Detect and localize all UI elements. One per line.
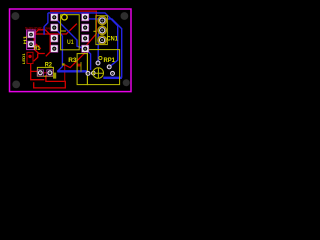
wire: blue trace 1 (top horizontal to CN1 right, down to RP1 pad) [48, 13, 118, 67]
wire: red top net (H1 pad1 to U1 right pad4) [31, 11, 96, 46]
U1 pad 6 (right col) [82, 24, 89, 31]
silk tick near CN1 [93, 30, 96, 32]
U1 pad 4 (left col) [51, 45, 58, 52]
mounting hole top-left [11, 12, 19, 20]
svg-text:R2: R2 [45, 62, 53, 68]
R3 outline (yellow) [77, 54, 87, 85]
svg-text:R3: R3 [68, 57, 77, 64]
wire: blue CN1 pin2 to RP1 pad [98, 30, 102, 61]
smd pad olive near R3 [62, 63, 65, 65]
smd pad dark red near R3 left edge [77, 64, 80, 67]
small ring marker in RP1 [99, 56, 102, 59]
H1 pad 1 [28, 31, 34, 37]
U1 pad 1 (left col) [51, 14, 58, 21]
svg-text:H1: H1 [23, 35, 29, 44]
pin1 marker ring [62, 14, 68, 20]
wire: blue connector outline top-left [44, 13, 48, 35]
svg-text:U1: U1 [67, 39, 74, 46]
R2 outline (yellow) [37, 67, 53, 76]
mounting hole top-right [121, 12, 129, 20]
U1 silk tick [61, 30, 66, 32]
U1 pad 7 (right col) [82, 35, 89, 42]
svg-text:R1: R1 [34, 45, 41, 52]
RP1 pad C [107, 65, 111, 69]
svg-text:CN1: CN1 [107, 35, 119, 42]
wire: blue diagonal through U1 [54, 17, 85, 48]
wire: blue trace 2 (U1 pad to right edge, down) [88, 19, 122, 78]
CN1 pad 1 [98, 16, 106, 24]
U1 pad 2 (left col) [51, 24, 58, 31]
wire: blue from pad2 diagonal down center [54, 28, 62, 72]
RP1 pad A [86, 72, 90, 76]
background [0, 0, 141, 101]
U1 socket outline (yellow) [61, 15, 80, 50]
R2 pad 2 [47, 70, 53, 76]
CN1 pad 2 [98, 26, 106, 34]
CN1 outline side lines (yellow) [96, 16, 108, 45]
CN1 pad 3 [98, 36, 106, 44]
svg-text:RP1: RP1 [104, 57, 116, 64]
RP1 pad D [111, 72, 115, 76]
board outline (dimension layer) [10, 9, 132, 92]
LED1 body (red outline) [27, 52, 33, 63]
svg-text:LED1: LED1 [22, 53, 26, 64]
R3 inner silk line [80, 62, 82, 72]
wire: red LED net serpentine [31, 64, 66, 88]
wire: dark red between R2 pads [40, 72, 50, 74]
RP1 outline (yellow) [87, 50, 119, 85]
H1 pad 2 [28, 41, 34, 47]
trimmer circle with cross [93, 68, 104, 79]
U1 pad 8 (right col) [82, 45, 89, 52]
RP1 pad B [96, 61, 100, 65]
LED1 dot [28, 55, 31, 58]
RP1 pad A2 [92, 71, 96, 75]
wire: red R3 net diagonal [65, 51, 86, 68]
wire: blue thick band center-bottom [57, 70, 87, 72]
wire: red vertical center-bottom [64, 64, 66, 81]
wire: red trace A (pad1 up-over to center, down) [34, 30, 50, 57]
U1 pad 3 (left col) [51, 35, 58, 42]
U1 pad 5 (right col) [82, 14, 89, 21]
mounting hole bottom-right [123, 79, 130, 86]
mounting hole bottom-left [12, 81, 20, 89]
wire: red vertical from pad1 down + R1 bottom jog [34, 34, 45, 61]
wire: blue short vertical right of R3 [85, 49, 90, 70]
wire: blue band bottom-right [103, 77, 122, 79]
smd pad olive below R2 [53, 73, 56, 79]
H1 outline (magenta) [27, 30, 36, 50]
R2 pad 1 [37, 70, 43, 76]
